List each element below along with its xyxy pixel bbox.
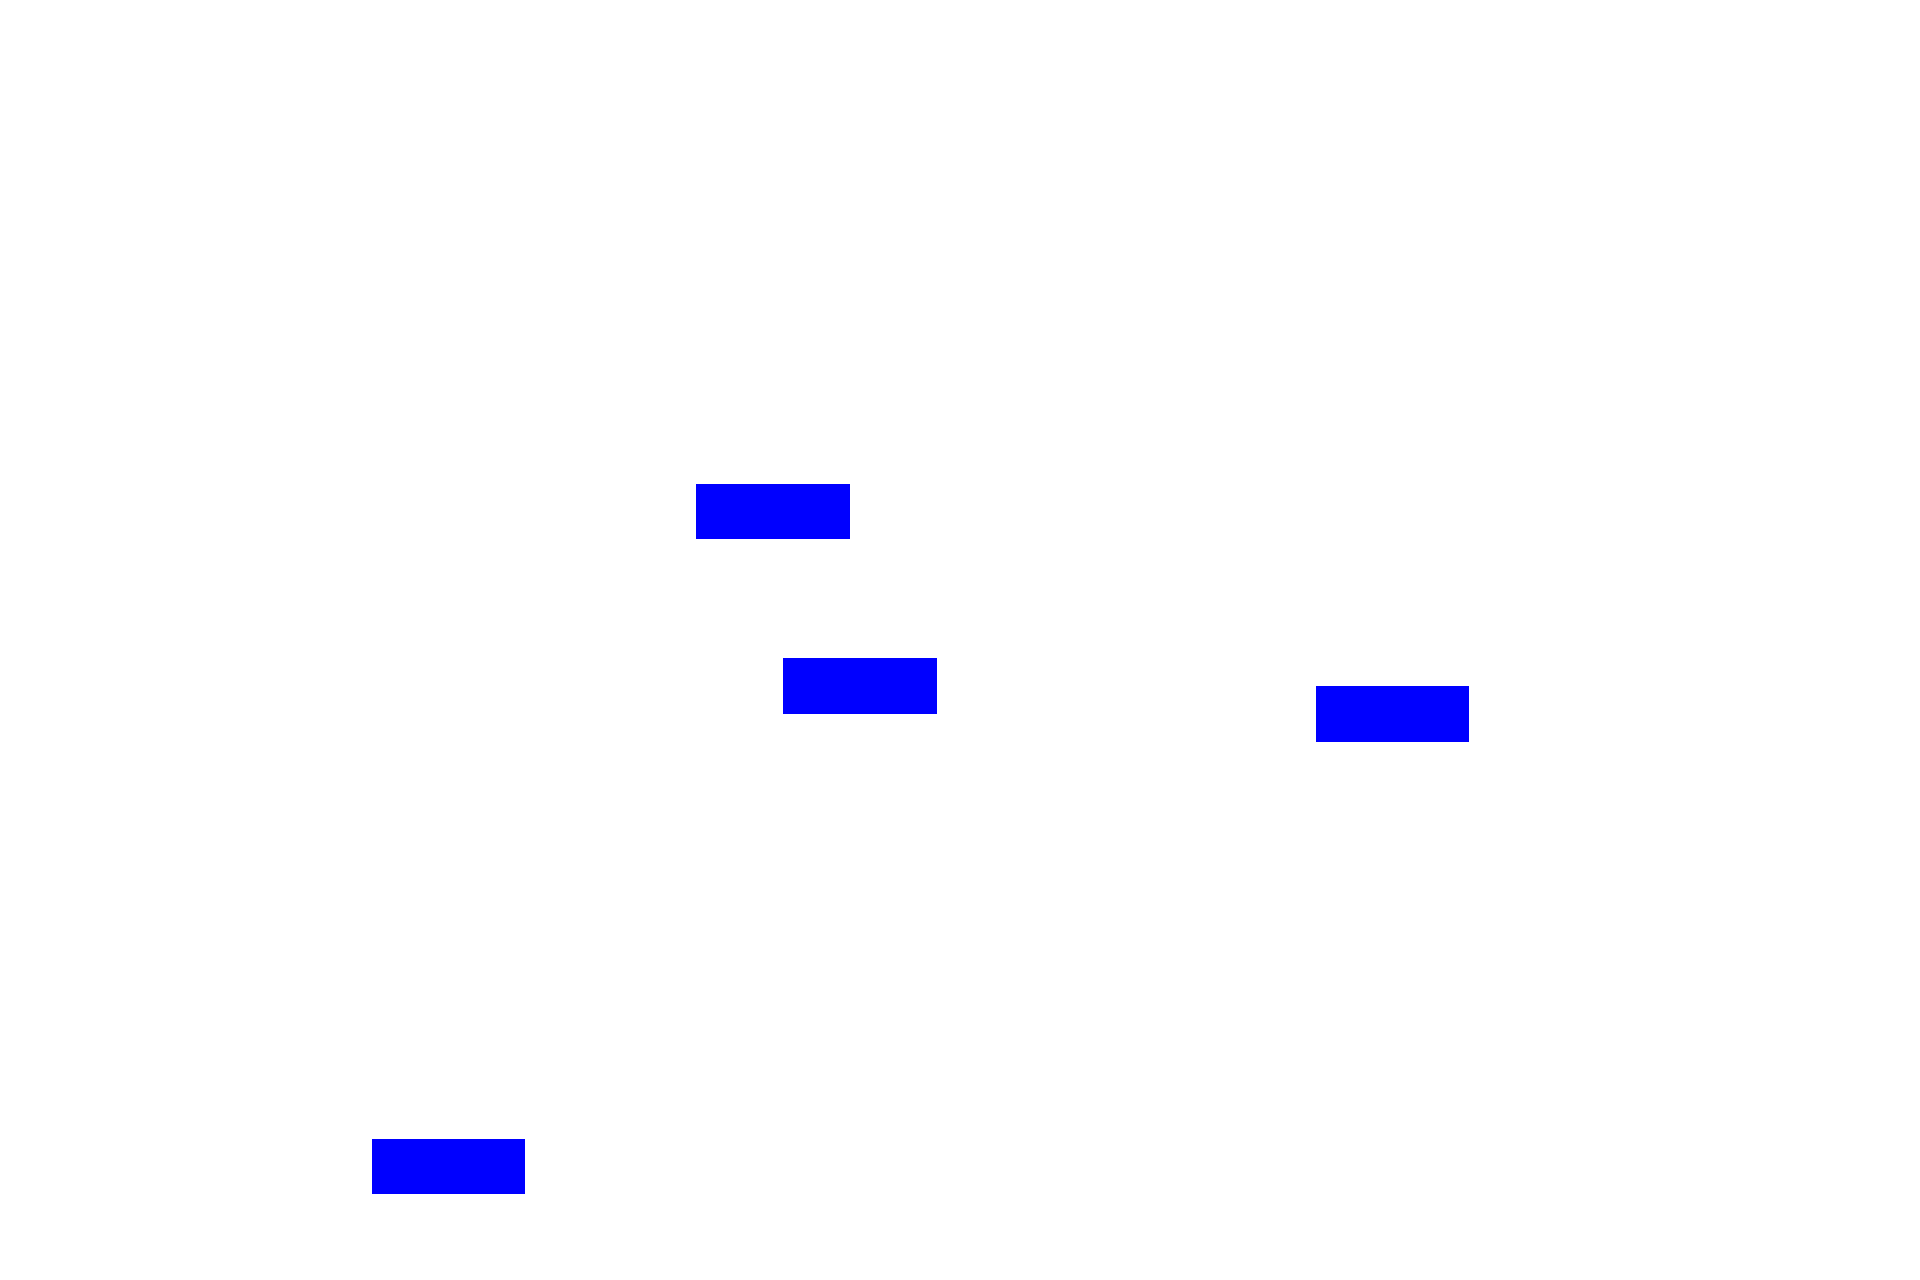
blue rectangle 4 (lower left) bbox=[372, 1139, 525, 1194]
blue rectangle 1 (upper middle) bbox=[696, 484, 850, 539]
blue rectangle 3 (center right) bbox=[1316, 686, 1469, 742]
blue rectangle 2 (center) bbox=[783, 658, 937, 714]
